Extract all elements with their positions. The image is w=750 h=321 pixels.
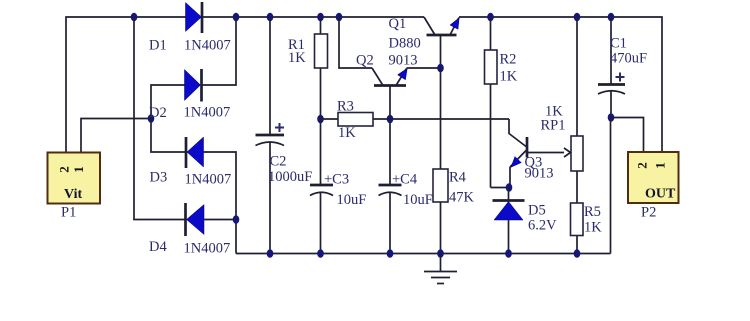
svg-text:1000uF: 1000uF [268, 169, 312, 185]
svg-text:1: 1 [71, 166, 86, 173]
svg-text:1K: 1K [500, 69, 518, 85]
wire D3 cathode drop [151, 119, 186, 153]
wire P1 pin2 to bridge midpoint [81, 119, 151, 153]
node bottom rail R5 [574, 249, 581, 258]
transistor Q3 [509, 119, 564, 188]
wire C1 to P2 pin2 [611, 118, 644, 153]
svg-text:OUT: OUT [645, 187, 676, 202]
node top rail x=577 RP1 [574, 13, 581, 22]
svg-text:1N4007: 1N4007 [184, 105, 231, 121]
node bridge AC2 [148, 114, 155, 123]
ground [424, 254, 457, 284]
svg-text:D4: D4 [149, 239, 167, 255]
diode D4 [186, 203, 205, 236]
connector P1 [48, 153, 101, 204]
resistor R3 [338, 113, 373, 127]
node Q1 base junction [437, 64, 444, 73]
wire top rail left segment [66, 17, 186, 153]
capacitor C3 [310, 119, 333, 254]
node top rail x=339 [336, 13, 343, 22]
node Q3 emitter zener junction [506, 183, 513, 192]
svg-text:P2: P2 [641, 205, 656, 221]
wire top rail D1 cathode to Q1 collector [202, 16, 424, 18]
node R1 R3 C3 junction [317, 115, 324, 124]
svg-text:1K: 1K [338, 125, 356, 141]
node top rail x=320 R1 [317, 13, 324, 22]
svg-text:47K: 47K [449, 190, 475, 206]
wire base row [321, 118, 510, 120]
svg-text:1: 1 [653, 162, 668, 169]
svg-text:6.2V: 6.2V [528, 218, 557, 234]
svg-text:2: 2 [635, 162, 650, 169]
wire D2 cathode to top rail [202, 17, 236, 85]
wire R2 bottom to zener node [491, 187, 510, 189]
svg-text:1N4007: 1N4007 [185, 172, 232, 188]
node Q2 base junction [387, 115, 394, 124]
svg-text:10uF: 10uF [337, 192, 367, 208]
node bottom rail C4 [387, 249, 394, 258]
svg-text:C2: C2 [270, 154, 287, 170]
svg-text:RP1: RP1 [541, 118, 566, 134]
svg-text:2: 2 [57, 166, 72, 173]
svg-text:+C4: +C4 [392, 172, 418, 188]
node bottom rail D5 [505, 249, 512, 258]
node D3 D4 junction [233, 215, 240, 224]
wire top rail Q1 emitter to right corner [459, 17, 662, 153]
resistor R2 [485, 17, 498, 188]
svg-text:+C3: +C3 [324, 172, 349, 188]
svg-text:R3: R3 [337, 99, 354, 115]
svg-text:C1: C1 [610, 36, 627, 52]
capacitor C1 [598, 17, 625, 118]
node top rail x=270 [267, 13, 274, 22]
svg-text:470uF: 470uF [610, 51, 647, 67]
svg-text:Q2: Q2 [356, 53, 374, 69]
diode D3 [186, 137, 204, 168]
wire D4 anode to bottom corner [204, 220, 236, 254]
node top rail x=134 [131, 13, 138, 22]
wire Q2 emitter to Q1 base [407, 67, 441, 69]
svg-text:R5: R5 [584, 204, 601, 220]
svg-text:D3: D3 [150, 170, 168, 186]
wire ground riser right [610, 118, 612, 254]
resistor R1 [315, 17, 328, 119]
svg-text:R4: R4 [449, 170, 467, 186]
svg-text:P1: P1 [61, 205, 76, 221]
svg-text:D1: D1 [149, 38, 167, 54]
svg-text:9013: 9013 [525, 166, 554, 182]
zener D5 [493, 188, 525, 254]
node top rail x=611 C1 [608, 13, 615, 22]
transistor Q2 [339, 17, 407, 119]
node C1 bottom junction [608, 113, 615, 122]
svg-text:D5: D5 [528, 203, 546, 219]
connector P2 [628, 152, 679, 203]
svg-text:Vit: Vit [64, 187, 82, 202]
node bottom rail R4 [437, 249, 444, 258]
svg-text:1N4007: 1N4007 [184, 38, 231, 54]
svg-text:D880: D880 [389, 36, 421, 52]
node top rail x=490 R2 [487, 13, 494, 22]
svg-text:Q1: Q1 [389, 16, 407, 32]
transistor Q1 [424, 17, 459, 68]
node bottom rail C2 [267, 249, 274, 258]
wire bottom rail [236, 253, 611, 255]
svg-text:1K: 1K [288, 50, 306, 66]
svg-text:1N4007: 1N4007 [184, 241, 231, 257]
svg-text:D2: D2 [149, 105, 167, 121]
wire D2 anode riser [151, 85, 185, 119]
diode D2 [185, 69, 202, 102]
wire AC1 branch to D4 cathode [134, 17, 185, 220]
node bottom rail C3 [317, 249, 324, 258]
svg-text:9013: 9013 [389, 53, 418, 69]
potentiometer RP1 [564, 17, 583, 203]
svg-text:1K: 1K [584, 220, 602, 236]
resistor R4 [433, 68, 448, 254]
wire D3 anode to D4 junction [204, 152, 237, 220]
capacitor C2 [256, 17, 285, 254]
svg-text:R2: R2 [500, 52, 517, 68]
diode D1 [186, 2, 203, 33]
svg-text:10uF: 10uF [403, 192, 433, 208]
resistor R5 [571, 203, 584, 254]
node top rail x=236 [233, 13, 240, 22]
capacitor C4 [379, 119, 402, 254]
